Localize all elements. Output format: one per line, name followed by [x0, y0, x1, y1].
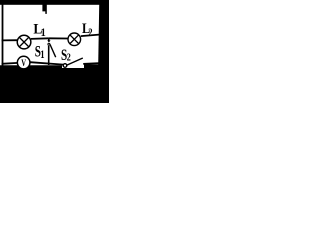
svg-text:2: 2 [88, 27, 92, 39]
switch S1 (vertical, open) [47, 38, 56, 65]
voltmeter V [17, 56, 30, 69]
S2 right wire into black [83, 62, 99, 65]
scan black border: right column [98, 0, 109, 70]
S2 pivot terminal circle [63, 64, 67, 68]
S1 bottom lead [48, 46, 50, 65]
lamp L1 [17, 35, 31, 49]
S1 lever (open, to lower right) [50, 44, 56, 57]
lamp L2 [68, 33, 81, 46]
wire: bottom row, left wire to voltmeter [2, 62, 18, 65]
wire: top row, left wire to L1 [2, 39, 18, 41]
circuit schematic scan, 109x103 [0, 0, 109, 103]
S1 fixed contact arrowhead [47, 40, 50, 42]
scan black border: top band [0, 0, 109, 5]
wire: S1 junction to L2 [49, 37, 68, 39]
S2 lever [67, 58, 83, 65]
wire: voltmeter to S2 [30, 62, 63, 64]
S1 top post [48, 38, 50, 41]
S1 pivot circle [48, 43, 50, 45]
wire: L1 to S1 junction [31, 37, 49, 40]
svg-text:1: 1 [40, 49, 44, 61]
scan black tab below top band [42, 4, 46, 14]
svg-text:V: V [21, 58, 26, 68]
wire: L2 to right black edge [81, 35, 101, 37]
svg-text:1: 1 [41, 26, 46, 39]
switch S2 (open, lever up-right) [63, 58, 99, 67]
svg-text:2: 2 [67, 51, 71, 63]
scan black border: bottom region [0, 63, 109, 103]
wire: left vertical [2, 3, 4, 66]
